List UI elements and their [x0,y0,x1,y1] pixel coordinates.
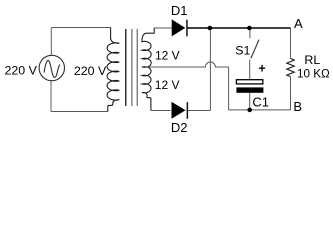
wire secondary top to D1 [154,27,172,29]
junction dot bottom rail C1 [247,108,252,113]
transformer core line 2 [131,29,133,106]
wire D2 cathode to riser [187,110,210,112]
junction dot top rail right [247,26,252,31]
svg-text:D1: D1 [171,3,188,18]
capacitor C1 top plate [236,80,262,84]
svg-text:C1: C1 [252,94,269,109]
switch S1 top contact wire [249,28,251,38]
svg-text:12 V: 12 V [155,78,180,92]
transformer core line 1 [125,29,127,106]
wire D2 anode horizontal [151,110,171,112]
wire source bottom lead [50,81,52,112]
svg-text:S1: S1 [235,44,250,58]
svg-text:RL: RL [304,53,320,67]
transformer core line 3 [136,29,138,106]
wire S1 to C1 top plate [249,60,251,80]
junction dot top rail left [208,26,213,31]
AC source V1 circle [39,55,64,80]
wire source top lead [50,28,52,55]
svg-text:A: A [294,16,303,31]
AC source sine wave [44,60,60,77]
transformer secondary winding top half [142,28,154,68]
wire D2 riser up to top rail [209,28,211,111]
diode D1 [172,19,188,36]
resistor RL zigzag [287,58,294,76]
svg-text:+: + [258,62,265,76]
svg-text:10 KΩ: 10 KΩ [297,68,330,81]
transformer primary winding [107,28,119,112]
transformer secondary winding bottom half [142,67,151,111]
switch S1 blade [251,40,259,59]
svg-text:D2: D2 [171,120,188,134]
capacitor C1 bottom plate [236,87,263,92]
svg-text:12 V: 12 V [155,48,180,62]
wire top-left horizontal [51,27,110,29]
wire node A vertical down to RL [290,28,292,58]
wire center tap descent [228,67,230,110]
wire center tap horizontal with hop over riser [142,62,228,67]
wire bottom-left horizontal [51,111,108,113]
wire top rail D1 cathode to corner A [187,27,291,29]
svg-text:B: B [293,99,302,114]
diode D2 [172,102,189,119]
svg-text:220 V: 220 V [74,64,107,78]
svg-text:220 V: 220 V [5,63,38,77]
capacitor C1 bottom lead [249,93,251,110]
wire RL to node B [290,77,292,110]
wire bottom rail to node B [229,109,291,111]
